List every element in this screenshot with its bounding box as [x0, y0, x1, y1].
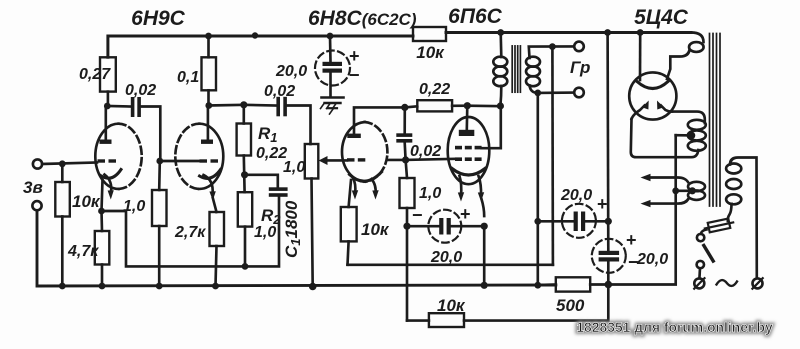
node secondary bottom	[534, 90, 541, 97]
V3 cathode arrows	[460, 176, 462, 196]
svg-text:6Н8С(6С2С): 6Н8С(6С2С)	[308, 7, 417, 30]
resistor 10к (B+ dropping, in rail)	[413, 27, 446, 41]
node gnd-10к	[59, 283, 66, 290]
wire bias line down	[406, 226, 409, 320]
wire anode left to HV bottom	[631, 119, 699, 157]
node grid V1b	[156, 158, 163, 165]
V4 filament	[637, 82, 668, 89]
input terminal upper	[33, 159, 42, 168]
svg-text:500: 500	[556, 296, 585, 315]
V4 anode left	[632, 106, 645, 120]
V4 heater winding loop (5V)	[691, 33, 704, 43]
rectifier V4 5Ц4С envelope	[629, 72, 676, 119]
wire secondary bottom to ground rail	[536, 93, 539, 285]
capacitor 20,0 electrolytic filter4	[592, 239, 626, 273]
output transformer secondary	[526, 57, 540, 67]
AC tilde	[717, 280, 738, 286]
svg-text:2,7к: 2,7к	[174, 224, 206, 241]
node R1 top	[240, 101, 247, 108]
svg-text:−: −	[349, 65, 360, 85]
resistor 10к (cathode V2)	[349, 180, 351, 207]
V3 control grid	[455, 157, 462, 161]
wire anode right to HV top	[672, 112, 705, 123]
capacitor 0,02 coupling V2-V3	[403, 107, 406, 133]
resistor 10к (input load)	[61, 164, 64, 182]
node cathode V1a	[98, 208, 105, 215]
svg-text:6П6С: 6П6С	[448, 5, 502, 28]
node cathode V3	[481, 223, 488, 230]
svg-text:+: +	[460, 204, 471, 224]
V2 anode	[347, 134, 361, 138]
node rail-rectifier	[637, 29, 644, 36]
node heater CT	[689, 187, 696, 194]
node back-bias junction	[605, 281, 613, 289]
V2 grid	[347, 158, 355, 161]
svg-text:1,0: 1,0	[283, 159, 305, 176]
wire grid V3	[406, 159, 455, 160]
resistor R2 1,0	[238, 192, 252, 226]
switch	[697, 234, 704, 241]
wire cathode feedback to R2 line	[102, 198, 280, 267]
svg-text:0,1: 0,1	[177, 69, 199, 86]
heater feed arrow upper	[650, 178, 688, 183]
node NFB tap secondary top	[549, 43, 556, 50]
potentiometer 1,0 volume	[305, 144, 319, 179]
V2 grid stub right	[388, 159, 406, 162]
speaker terminal Гр upper	[574, 42, 584, 52]
transformer mains primary	[726, 164, 741, 174]
V2 cathode hook	[350, 172, 382, 181]
node R1-R2	[241, 171, 248, 178]
svg-text:0,02: 0,02	[125, 82, 156, 99]
node R2 bottom	[242, 263, 249, 270]
node gnd-pot	[309, 283, 317, 291]
wire cathode V3 to ground rail	[483, 226, 486, 286]
node V2 anode junction	[401, 104, 408, 111]
node anode V1a	[104, 103, 111, 110]
V1a anode	[100, 140, 112, 144]
resistor 500	[540, 283, 556, 286]
node grid V3	[402, 156, 409, 163]
node bias-cap minus	[403, 223, 410, 230]
wire grid V1b	[160, 160, 199, 163]
capacitor 20,0 electrolytic (bias)	[428, 210, 461, 243]
wire bias junction to heater CT	[608, 135, 675, 284]
svg-text:20,0: 20,0	[275, 63, 307, 80]
heater feed arrow lower	[650, 200, 688, 204]
svg-text:+: +	[626, 230, 637, 250]
V3 screen lead	[482, 106, 501, 149]
V1b cathode hook	[200, 170, 221, 179]
svg-text:0,22: 0,22	[419, 81, 450, 98]
beam tetrode V3 6П6С envelope	[448, 117, 490, 184]
svg-text:6Н9С: 6Н9С	[131, 7, 186, 30]
node gnd-cathode V3	[481, 282, 488, 289]
svg-text:10к: 10к	[437, 296, 466, 315]
svg-text:0,02: 0,02	[264, 83, 295, 100]
transformer heater winding 6,3V	[688, 182, 705, 191]
wire B+ rail right segment	[446, 31, 691, 34]
wire B+ rail left segment	[108, 36, 413, 57]
V3 screen grid	[455, 146, 462, 150]
V1a cathode hook	[101, 170, 122, 179]
triode V1a 6Н9С envelope	[95, 124, 118, 189]
svg-text:1,0: 1,0	[123, 198, 145, 215]
V1b anode	[201, 140, 213, 144]
svg-text:0,27: 0,27	[79, 66, 111, 83]
wire anode V1b to R1 top	[209, 103, 244, 106]
resistor 2,7к (cathode V1b)	[213, 198, 217, 212]
V3 anode	[459, 130, 475, 136]
triode V2 6Н8С envelope	[342, 122, 365, 182]
transformer HV winding	[688, 120, 706, 130]
wire B+ vertical x608	[606, 33, 609, 251]
wire input to grid V1a	[42, 163, 97, 165]
svg-text:20,0: 20,0	[636, 251, 668, 268]
output transformer primary	[499, 33, 502, 58]
AC terminal left	[694, 278, 704, 288]
node rail-0,1	[205, 33, 212, 40]
node screen V3 / OT primary bottom	[497, 102, 504, 109]
triode V1b 6Н9С envelope	[199, 124, 223, 189]
node gnd-secondary	[534, 282, 541, 289]
svg-text:10к: 10к	[72, 192, 101, 211]
input terminal lower	[32, 201, 41, 210]
node rail-OT	[497, 29, 504, 36]
svg-text:1,0: 1,0	[254, 224, 276, 241]
node gnd-2,7к	[212, 283, 219, 290]
AC terminal right	[753, 278, 763, 288]
node anode V3	[464, 102, 471, 109]
node HV tap	[688, 132, 696, 140]
resistor 0,22 (plate load V2)	[405, 106, 418, 107]
wire NFB line	[348, 263, 553, 266]
capacitor 20,0 filter (6Н8С supply)	[315, 51, 350, 86]
V4 anode right	[661, 106, 672, 112]
output transformer core	[511, 46, 513, 92]
svg-text:5Ц4С: 5Ц4С	[634, 6, 689, 29]
svg-text:+: +	[597, 194, 608, 214]
capacitor 20,0 electrolytic filter3	[562, 204, 596, 238]
svg-text:1828351 для forum.onliner.by: 1828351 для forum.onliner.by	[576, 319, 773, 335]
resistor 1,0 (grid V3)	[406, 160, 407, 178]
resistor 0,27 (plate load V1a)	[100, 57, 116, 91]
wire lower terminal to ground rail	[37, 210, 556, 286]
resistor 1,0 (grid V1b)	[158, 161, 161, 190]
node anode V1b	[205, 102, 212, 109]
V3 beam/cathode arc	[452, 169, 485, 176]
svg-text:−: −	[628, 252, 639, 272]
svg-text:0,02: 0,02	[410, 143, 441, 160]
svg-text:20,0: 20,0	[430, 249, 462, 266]
capacitor 0,02 coupling V1a-V1b	[107, 105, 131, 108]
capacitor 0,02 coupling V1b-pot	[244, 103, 277, 106]
V4 filament lead left from rail	[639, 33, 642, 81]
node filtercap3 left	[534, 218, 541, 225]
V1a cathode lead	[102, 180, 103, 211]
ground (chassis)	[322, 96, 344, 99]
wire NFB vertical	[551, 47, 554, 265]
svg-text:4,7к: 4,7к	[67, 243, 99, 260]
svg-text:10к: 10к	[361, 220, 390, 239]
wire primary top to AC terminal right	[730, 158, 757, 279]
resistor 10к (back bias)	[464, 285, 608, 321]
svg-text:3в: 3в	[23, 178, 43, 197]
svg-text:−: −	[412, 205, 423, 225]
node filtercap3 right	[605, 218, 612, 225]
node gnd-4,7к	[99, 283, 106, 290]
svg-text:10к: 10к	[416, 43, 445, 62]
speaker terminal Гр lower	[574, 88, 584, 98]
transformer core	[709, 34, 711, 207]
svg-text:20,0: 20,0	[560, 187, 592, 204]
capacitor C1 1800	[245, 175, 278, 188]
svg-text:Гр: Гр	[570, 58, 590, 77]
svg-text:R1: R1	[258, 124, 278, 145]
node input-10к	[59, 160, 66, 167]
resistor 4,7к	[100, 211, 103, 231]
V1a grid	[98, 159, 106, 162]
wire anode to OT bottom	[467, 104, 500, 107]
resistor R1 0,22	[242, 105, 245, 124]
resistor 0,1 (plate load V1b)	[207, 36, 210, 57]
node rail blob	[252, 32, 258, 38]
svg-text:С11800: С11800	[282, 200, 303, 258]
pot wiper arrow to grid V2	[319, 156, 328, 165]
wire primary bottom to fuse	[728, 204, 732, 221]
V1b grid	[200, 159, 208, 162]
node rail-filtercap	[327, 33, 334, 40]
fuse	[704, 218, 734, 233]
svg-text:+: +	[349, 46, 360, 66]
node gnd-1,0	[156, 283, 163, 290]
node rail-filter2	[604, 29, 611, 36]
svg-text:1,0: 1,0	[419, 185, 441, 202]
